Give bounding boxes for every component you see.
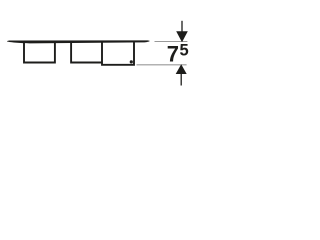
svg-text:5: 5 [180,41,189,59]
svg-text:7: 7 [167,41,179,66]
